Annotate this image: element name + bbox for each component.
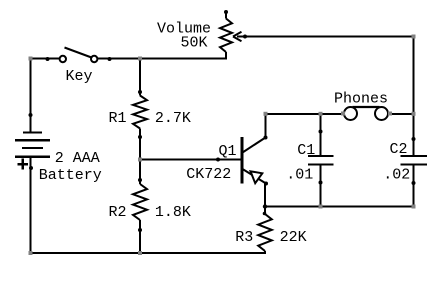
svg-text:Key: Key [66, 68, 93, 85]
phones terminal gray dot right [388, 112, 392, 116]
battery terminal dot bottom [29, 166, 33, 170]
junction gray phones right rail [412, 112, 416, 116]
svg-text:C2: C2 [390, 141, 408, 158]
transistor Q1 collector diagonal [243, 138, 266, 153]
potentiometer wiper wire dot [243, 35, 247, 39]
svg-text:.02: .02 [383, 167, 410, 184]
wire bottom rail [31, 252, 267, 254]
junction gray top rail R1 branch [138, 57, 142, 61]
junction emitter node dot [263, 204, 267, 208]
wire phones right to right rail [386, 113, 415, 115]
wire base node to Q1 base [139, 159, 241, 161]
junction gray collector corner [264, 112, 268, 116]
switch wire end dot right [108, 57, 112, 61]
wire pot wiper line to right rail [237, 36, 415, 38]
svg-text:R2: R2 [109, 204, 127, 221]
transistor Q1 CK722 base bar [241, 137, 244, 184]
wire R3 bottom elbow to ground rail [264, 251, 266, 254]
capacitor C2 terminal dot top [412, 137, 416, 141]
wire R1 bottom to base node [139, 129, 141, 161]
wire top rail switch to pot segment [98, 58, 228, 60]
switch S1 Key lever [65, 48, 92, 58]
capacitor C2 terminal dot bottom [412, 181, 416, 185]
switch contact right [91, 56, 97, 62]
potentiometer top terminal dot [224, 10, 228, 14]
transistor Q1 collector dot [264, 136, 268, 140]
transistor Q1 emitter diagonal [243, 169, 267, 184]
wire C1 branch down from collector rail [320, 114, 322, 156]
resistor R3 terminal dot top [263, 212, 267, 216]
wire mid rail (emitter node to right rail) [264, 206, 415, 208]
wire left rail top (battery + to switch corner) [30, 58, 32, 133]
svg-text:CK722: CK722 [186, 166, 231, 183]
resistor R3 22K zigzag [258, 214, 272, 251]
wire Q1 emitter vertical to R3 [264, 184, 266, 215]
battery plus polarity mark [18, 159, 29, 170]
resistor R2 terminal dot top [138, 178, 142, 182]
resistor R1 terminal dot top [138, 90, 142, 94]
wire R2 bottom to ground rail [139, 220, 141, 254]
wire pot top stub [225, 12, 227, 19]
junction gray bottom-right corner [412, 205, 416, 209]
wire top rail left segment [30, 58, 60, 60]
svg-text:Battery: Battery [39, 167, 102, 184]
junction gray bottom rail R2 [138, 251, 142, 255]
wire right rail upper (wiper corner to C2 top plate) [413, 37, 415, 157]
capacitor C1 .01 plates [308, 156, 334, 165]
wire collector rail to phones left [266, 113, 347, 115]
svg-text:2 AAA: 2 AAA [55, 150, 100, 167]
wire pot bottom elbow to top rail [225, 52, 227, 60]
resistor R1 terminal dot bottom [138, 135, 142, 139]
potentiometer Volume 50K zigzag [220, 19, 232, 53]
capacitor C1 terminal dot bottom [319, 181, 323, 185]
junction gray bottom-left corner [29, 251, 33, 255]
svg-text:22K: 22K [280, 229, 307, 246]
potentiometer wiper arrow [233, 32, 242, 42]
wire Q1 collector vertical [265, 113, 267, 138]
junction gray C1 bottom [319, 205, 323, 209]
wire left rail bottom (battery - to ground rail) [30, 157, 32, 255]
wire right rail lower (C2 bottom plate to mid rail) [413, 165, 415, 208]
junction gray C1 top [319, 112, 323, 116]
wire base node down to R2 [139, 160, 141, 185]
capacitor C1 terminal dot top [319, 130, 323, 134]
phones headband bridge [353, 106, 380, 108]
phones terminal gray dot left [341, 112, 345, 116]
transistor Q1 emitter dot [264, 182, 268, 186]
junction gray base node [138, 158, 142, 162]
svg-text:R1: R1 [109, 110, 127, 127]
switch wire end dot left [46, 57, 50, 61]
switch contact left [60, 56, 66, 62]
capacitor C2 .02 plates [401, 156, 428, 165]
svg-text:C1: C1 [297, 142, 315, 159]
resistor R2 terminal dot bottom [138, 228, 142, 232]
svg-text:Q1: Q1 [219, 143, 237, 160]
junction gray wiper corner top-right [412, 35, 416, 39]
svg-text:50K: 50K [181, 35, 208, 52]
junction gray top-left corner [29, 57, 33, 61]
wire R1 branch down from top rail [139, 59, 141, 96]
resistor R1 2.7K zigzag [133, 96, 147, 129]
svg-text:R3: R3 [235, 229, 253, 246]
phones left earpiece circle [344, 107, 357, 120]
resistor R2 1.8K zigzag [133, 184, 147, 220]
svg-text:2.7K: 2.7K [155, 110, 191, 127]
svg-text:Phones: Phones [334, 90, 388, 107]
wire C1 bottom plate to mid rail [320, 165, 322, 208]
battery terminal dot top [29, 113, 33, 117]
battery B1 2 AAA [15, 133, 50, 157]
svg-text:.01: .01 [286, 167, 313, 184]
transistor Q1 emitter arrow (PNP) [251, 171, 263, 183]
svg-text:1.8K: 1.8K [155, 204, 191, 221]
base wire pin dot [216, 158, 220, 162]
phones right earpiece circle [375, 107, 388, 120]
